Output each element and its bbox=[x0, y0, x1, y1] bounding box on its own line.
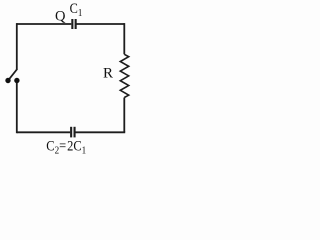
label C2 = 2C1 bbox=[46, 138, 86, 157]
wire bottom-left segment bbox=[17, 131, 70, 133]
label C1 bbox=[70, 0, 83, 19]
wire top-right segment bbox=[77, 23, 125, 25]
wire left upper (above switch) bbox=[16, 23, 18, 69]
wire right upper bbox=[123, 23, 125, 54]
wire top-left segment bbox=[17, 23, 72, 25]
switch lever bbox=[8, 69, 17, 80]
svg-text:R: R bbox=[103, 65, 113, 81]
switch contact dot left bbox=[5, 78, 10, 83]
wire right lower bbox=[123, 98, 125, 133]
wire left lower (below switch) bbox=[16, 81, 18, 134]
svg-text:C2= 2C1: C2= 2C1 bbox=[46, 138, 86, 157]
resistor R bbox=[120, 54, 128, 97]
wire bottom-right segment bbox=[76, 131, 126, 133]
svg-text:Q: Q bbox=[55, 9, 66, 25]
switch contact dot right bbox=[14, 78, 19, 83]
capacitor C1 bbox=[71, 19, 76, 29]
capacitor C2 bbox=[70, 127, 76, 138]
